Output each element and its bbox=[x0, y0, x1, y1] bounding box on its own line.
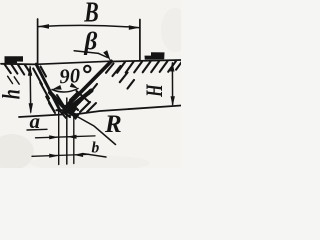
svg-text:h: h bbox=[0, 89, 26, 99]
svg-text:B: B bbox=[83, 0, 98, 28]
svg-text:R: R bbox=[104, 111, 122, 138]
svg-text:b: b bbox=[92, 140, 100, 157]
svg-text:a: a bbox=[30, 109, 41, 133]
svg-text:90: 90 bbox=[59, 65, 81, 88]
svg-text:β: β bbox=[84, 29, 98, 56]
svg-text:H: H bbox=[142, 84, 167, 98]
